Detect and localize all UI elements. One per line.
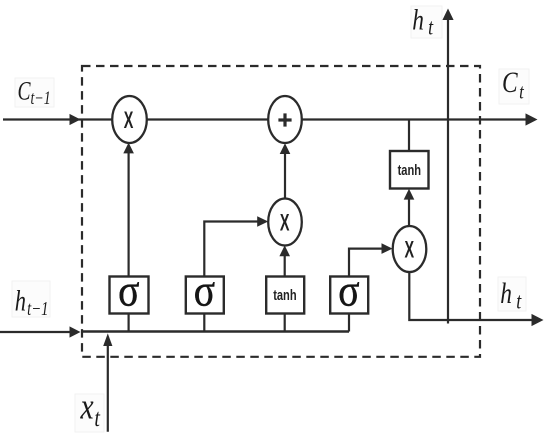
wire: middle X up to adder — [284, 148, 286, 200]
arrowhead: h_t up — [442, 9, 453, 21]
arrowhead: C_t-1 input into cell — [70, 114, 81, 125]
label h_t-1 — [12, 281, 50, 320]
svg-text:σ: σ — [194, 266, 215, 316]
svg-text:X: X — [124, 107, 134, 134]
arrowhead: into adder bottom — [280, 143, 291, 154]
sigma box 3 (output gate) — [330, 266, 368, 316]
label C_t — [499, 65, 529, 104]
label C_t-1 — [15, 77, 54, 109]
wire: h_t vertical line up out of cell — [447, 15, 449, 324]
multiply gate X2 (middle) — [268, 199, 302, 246]
wire: stub into bottom tanh — [284, 313, 286, 332]
arrowhead: into right X left — [382, 243, 393, 254]
wire: x_t input arrow up — [107, 344, 109, 432]
arrowhead: into middle X bottom — [279, 245, 290, 256]
svg-text:tanh: tanh — [273, 286, 296, 303]
wire: output-gate sigma3 elbow to right X — [349, 249, 387, 277]
wire: C cell-state line — [3, 118, 531, 120]
sigma box 1 (forget gate) — [110, 266, 149, 316]
svg-text:X: X — [404, 237, 414, 264]
arrowhead: x_t into h line — [103, 333, 112, 346]
wire: stub into sigma3 — [348, 313, 350, 332]
dashed LSTM cell border — [82, 66, 480, 357]
label h_t (right) — [498, 276, 526, 314]
svg-text:X: X — [280, 210, 290, 237]
label h_t (top) — [411, 3, 442, 40]
multiply gate X1 — [112, 96, 147, 143]
wire: stub into sigma2 — [203, 313, 205, 332]
wire: internal h line along bottom — [82, 330, 349, 333]
wire: stub into sigma1 — [128, 313, 130, 332]
tanh box (candidate activation) — [266, 277, 304, 314]
wire: bottom tanh up to middle X — [284, 250, 286, 277]
svg-text:tanh: tanh — [398, 161, 421, 178]
add gate + — [268, 96, 302, 143]
wire: input-gate sigma2 elbow to middle X — [204, 222, 263, 278]
multiply gate X3 (right, output) — [393, 226, 427, 272]
wire: right X up to tanh box — [408, 195, 410, 227]
tanh box (cell output activation) — [390, 151, 429, 189]
arrowhead: into tanh box bottom — [404, 189, 415, 200]
arrowhead: into middle X left — [257, 216, 268, 227]
arrowhead: C_t output — [526, 113, 538, 125]
svg-text:σ: σ — [338, 266, 359, 316]
wire: junction C line down to tanh box top — [408, 120, 410, 153]
arrowhead: h_t-1 into cell — [70, 326, 81, 337]
svg-text:σ: σ — [118, 266, 139, 316]
sigma box 2 (input gate) — [186, 266, 224, 316]
wire: h_t-1 input arrow — [0, 331, 70, 333]
arrowhead: h_t output — [532, 314, 544, 326]
wire: forget-gate sigma1 up to multiply X1 — [128, 147, 130, 277]
label x_t — [75, 387, 104, 432]
arrowhead: into X1 bottom — [123, 143, 134, 154]
wire: right X down and h_t output line — [409, 271, 537, 320]
